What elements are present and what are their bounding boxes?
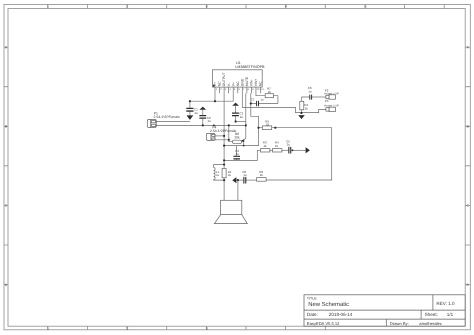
svg-text:1k: 1k: [275, 144, 279, 148]
resistor R2: [222, 168, 226, 177]
svg-text:EasyEDA V5.5.12: EasyEDA V5.5.12: [307, 321, 340, 326]
svg-text:1u: 1u: [287, 143, 291, 147]
wire: P4 pin2 node vertical and to pot left: [215, 125, 233, 141]
VCC arrow above C2: [199, 107, 206, 110]
node: speaker lead2 junction: [237, 179, 239, 181]
capacitor C7 plates: [256, 101, 259, 106]
svg-text:1: 1: [47, 326, 49, 330]
wire: L1R2 bottom bar: [214, 179, 225, 182]
svg-text:2: 2: [127, 5, 129, 9]
wire: speaker lead 2: [237, 180, 239, 200]
svg-text:NC: NC: [236, 81, 240, 86]
wire: C8 to R6: [246, 179, 257, 181]
wire: R7 right lead down to C7 row: [274, 96, 278, 104]
wire: rail C1/pin1/pin5 (node VCC rail): [190, 100, 233, 102]
frame column numbers top: [47, 5, 367, 9]
title block: [304, 295, 465, 326]
inductor L1 coil: [214, 168, 216, 180]
resistor R1 vertical: [300, 101, 304, 110]
svg-text:Header 1*1P: Header 1*1P: [324, 105, 339, 108]
resistor R7: [265, 94, 273, 98]
node: output / L1R2 top junction: [223, 163, 225, 165]
svg-text:REV: 1.0: REV: 1.0: [436, 301, 455, 306]
wire: pot right lead down to C4 row: [242, 142, 244, 146]
capacitor C6 plates: [309, 95, 312, 100]
node: output / C4 row junction: [223, 145, 225, 147]
wire: R4-C5 link: [282, 149, 288, 151]
node: P4 pin1 / output junction: [223, 135, 225, 137]
wire: C3 stems: [235, 106, 237, 122]
svg-text:1u: 1u: [308, 89, 312, 93]
wire: C3 bottom link to pin8 column: [236, 121, 246, 123]
svg-text:1u: 1u: [260, 97, 264, 101]
svg-text:B: B: [467, 125, 469, 129]
ground arrow below C1: [187, 115, 194, 120]
svg-text:1k: 1k: [263, 144, 267, 148]
resistor R4: [273, 149, 282, 152]
svg-text:1: 1: [47, 5, 49, 9]
svg-text:OUTPUT: OUTPUT: [222, 72, 226, 86]
node: R5 left junction: [257, 127, 259, 129]
ground arrow below ground node: [298, 115, 305, 119]
wire: output net long vertical from U1 pin3 to speaker: [223, 93, 225, 200]
node: C2 / input row junction: [202, 124, 204, 126]
wire: P1 pin1: [156, 121, 190, 123]
node: C5 row junction: [292, 149, 294, 151]
svg-text:GND: GND: [240, 78, 244, 86]
capacitor C1 plates: [186, 108, 193, 112]
header P3: [326, 108, 329, 111]
node: P4 pin2 column / input row junction: [228, 124, 230, 126]
wire: C6 to P2: [312, 96, 326, 98]
frame ticks left: [4, 47, 8, 285]
frame column numbers bottom: [47, 326, 208, 330]
wire: U1 pin10 to R7: [256, 93, 265, 96]
op-amp U1 LM3886TF/NOPB body: [213, 70, 263, 87]
svg-text:VIN+: VIN+: [254, 79, 258, 87]
svg-text:1u: 1u: [207, 119, 211, 123]
svg-text:20k: 20k: [235, 135, 241, 139]
node: pin1/rail junction: [214, 100, 216, 102]
capacitor C2 plates: [199, 115, 206, 119]
capacitor C3 plates: [232, 113, 239, 117]
svg-text:1k: 1k: [260, 173, 264, 177]
svg-text:1u: 1u: [235, 152, 239, 156]
svg-text:VIN-: VIN-: [250, 80, 254, 87]
wire: C1 stem: [189, 101, 191, 115]
svg-text:1u: 1u: [216, 173, 220, 177]
svg-text:NC: NC: [259, 81, 263, 86]
frame row letters left: [5, 45, 8, 287]
wire: U1 pin9 down, jog to R5 column, down to output row: [224, 93, 258, 145]
connector P1: [147, 119, 156, 127]
wire: R5 row with feedback loop to bottom: [259, 128, 332, 180]
capacitor C4 plates: [233, 156, 240, 160]
capacitor C5 plates: [288, 147, 291, 154]
resistor R5: [262, 126, 271, 130]
svg-text:2.54-1*2PFemale: 2.54-1*2PFemale: [154, 115, 181, 119]
U1 pins: [215, 87, 261, 93]
svg-text:1u: 1u: [240, 115, 244, 119]
svg-text:Header 1*1P: Header 1*1P: [324, 92, 339, 95]
wire: C4 stems: [236, 146, 238, 161]
wire: U1 pin8 down to pot wiper: [242, 93, 247, 141]
header P2: [326, 95, 329, 98]
svg-text:1k: 1k: [268, 90, 272, 94]
connector P4: [206, 133, 215, 140]
svg-text:1k: 1k: [266, 123, 270, 127]
wire: C7 row: [251, 103, 278, 105]
frame ticks right: [465, 47, 470, 285]
svg-text:LM3886TF/NOPB: LM3886TF/NOPB: [235, 65, 265, 69]
speaker LS1: [221, 200, 242, 214]
frame ticks top: [48, 5, 445, 9]
svg-text:Sheet:: Sheet:: [425, 312, 438, 317]
svg-text:MUTE: MUTE: [245, 76, 249, 86]
svg-text:TITLE:: TITLE:: [307, 296, 318, 300]
svg-text:4: 4: [285, 5, 287, 9]
wire: U1 pin7 to right ground run: [242, 93, 301, 112]
node: output / L1R2 bottom junction: [223, 179, 225, 181]
svg-text:1u: 1u: [194, 111, 198, 115]
node: C7 row / pin9 junction: [250, 102, 252, 104]
svg-text:B: B: [5, 125, 7, 129]
node: P4 pin2 junction: [228, 139, 230, 141]
wire: R1 bottom to ground node: [301, 110, 303, 113]
svg-text:2018-06-14: 2018-06-14: [329, 312, 353, 317]
svg-text:5: 5: [365, 5, 367, 9]
pot wiper arrowhead: [241, 139, 244, 142]
U1 pin names: [213, 72, 263, 86]
node: C1/rail junction: [189, 100, 191, 102]
wire: U1 pin1 to C1 rail: [214, 93, 216, 101]
wire: C4 bottom row to R3 feed: [224, 150, 260, 160]
svg-text:amotheralex: amotheralex: [419, 321, 442, 326]
wire: R3-R4 link: [270, 149, 273, 151]
svg-text:NC: NC: [218, 81, 222, 86]
svg-text:New Schematic: New Schematic: [308, 301, 349, 308]
U1 pin1 marker: [213, 85, 215, 87]
wire: C2 stems: [202, 110, 204, 126]
wire: U1 pin5 down to rail: [232, 93, 234, 101]
node: C3 bottom junction: [235, 120, 237, 122]
U1 pin numbers: [216, 88, 265, 91]
svg-text:1k: 1k: [305, 106, 309, 110]
wire: R1 top to C6 row: [302, 97, 310, 101]
node: output / C4 bottom row junction: [223, 159, 225, 161]
node: pot right junction: [243, 145, 245, 147]
svg-text:1u: 1u: [243, 173, 247, 177]
svg-text:V+: V+: [231, 82, 235, 86]
svg-text:C7: C7: [251, 98, 255, 102]
capacitor C8 plates: [243, 177, 246, 184]
node: pin8 / input row junction: [245, 124, 247, 126]
ground arrow left near speaker: [232, 177, 236, 183]
svg-text:1/1: 1/1: [447, 312, 454, 317]
frame ticks bottom: [48, 326, 326, 330]
node: right ground junction: [300, 112, 302, 114]
resistor R3: [260, 149, 270, 152]
potentiometer R8: [233, 140, 242, 143]
VCC arrow above C3: [232, 103, 239, 106]
svg-text:3: 3: [206, 326, 208, 330]
wire: C5 to ground arrow: [291, 149, 305, 151]
frame row letters right: [467, 45, 470, 287]
svg-text:2.54-1*2PFemale: 2.54-1*2PFemale: [210, 129, 237, 133]
svg-text:P3: P3: [325, 99, 329, 103]
wire: input row from P1 pin2 across to pin8 column: [156, 124, 246, 126]
wire: L1R2 top bar: [214, 165, 225, 168]
node: input row junction near P4: [213, 124, 215, 126]
svg-text:2: 2: [127, 326, 129, 330]
wire: C8 row left: [236, 179, 243, 181]
wire: P4 pin1 to output vertical: [215, 135, 224, 137]
resistor R6: [257, 178, 267, 182]
svg-text:V+: V+: [213, 82, 217, 86]
svg-text:Date:: Date:: [307, 312, 318, 317]
ground arrow right of C5: [306, 147, 310, 153]
svg-text:3: 3: [206, 5, 208, 9]
wire: ground node to P3: [301, 109, 326, 112]
svg-text:Drawn By:: Drawn By:: [390, 321, 409, 326]
svg-text:V-: V-: [227, 83, 231, 86]
node: R5 right junction: [274, 127, 276, 129]
